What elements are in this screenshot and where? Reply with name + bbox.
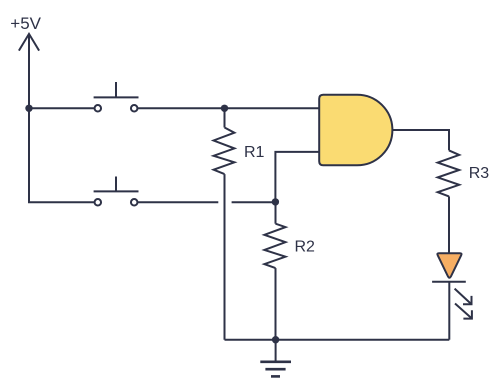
node C (R2 top junction) [272, 198, 279, 205]
svg-text:R2: R2 [295, 239, 316, 256]
wire crossover gap to node C [232, 201, 276, 203]
resistor R1 [214, 108, 235, 339]
wire node A to SW1 [29, 107, 94, 109]
svg-text:+5V: +5V [10, 14, 41, 33]
and-gate U1 [319, 95, 392, 166]
LED light arrow 2 [455, 304, 472, 319]
pushbutton SW1 [94, 82, 139, 112]
node B (R1 top junction) [221, 105, 228, 112]
svg-text:R3: R3 [469, 165, 490, 182]
power arrow [19, 34, 39, 108]
wire SW1 to AND gate input 1 [138, 107, 320, 109]
resistor R2 [264, 202, 285, 340]
resistor R3 [438, 150, 460, 253]
wire node C to AND gate input 2 [275, 152, 319, 202]
pushbutton SW2 [94, 177, 139, 206]
LED D1 [432, 253, 466, 340]
LED light arrow 1 [455, 289, 472, 305]
wire SW2 to crossover gap [138, 201, 219, 203]
svg-text:R1: R1 [244, 144, 265, 161]
node A (supply junction) [25, 105, 32, 112]
ground [260, 340, 291, 377]
bottom rail wire [225, 339, 450, 341]
wire left rail to SW2 [29, 108, 94, 202]
node D (ground junction) [272, 336, 279, 343]
wire AND gate output to R3 [392, 130, 449, 150]
